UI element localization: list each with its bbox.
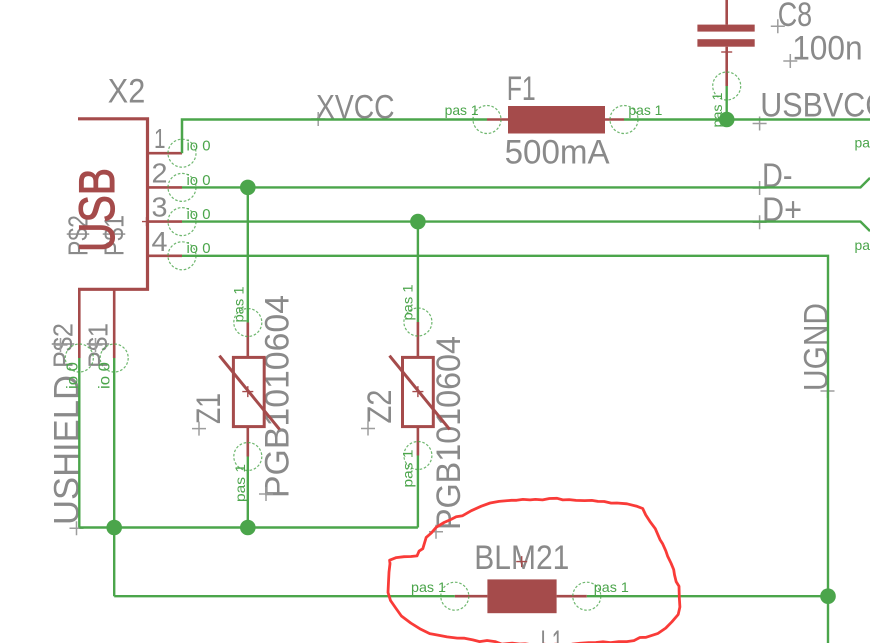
svg-text:pas 1: pas 1 (594, 579, 629, 595)
pin circle F1 left (473, 106, 501, 134)
wire XVCC net (182, 120, 487, 154)
X2 pin 2 stub (148, 186, 183, 189)
svg-text:D-: D- (762, 157, 793, 195)
varistor Z2 diagonal (390, 356, 450, 430)
svg-text:Z1: Z1 (190, 393, 228, 424)
svg-text:100n: 100n (792, 30, 863, 68)
junction BLM21/UGND (820, 588, 836, 604)
wire C8 to USBVCC (726, 86, 728, 120)
pin circle L1 right (573, 582, 601, 610)
ferrite bead L1 origin cross (516, 556, 527, 567)
USBVCC origin cross (753, 117, 767, 131)
varistor Z1 origin cross (242, 386, 253, 397)
varistor Z1 diagonal (219, 356, 279, 430)
svg-text:X2: X2 (108, 72, 146, 110)
svg-text:pas 1: pas 1 (445, 102, 479, 118)
wire Z2 top to D+ (417, 222, 419, 322)
capacitor C8 top lead (725, 0, 728, 25)
fuse F1 body (508, 106, 605, 134)
svg-text:1: 1 (154, 123, 166, 154)
pin circle Z2 top (404, 308, 432, 336)
junction bus/P$1 (106, 520, 122, 536)
capacitor C8 bottom pin stub (725, 47, 728, 86)
varistor Z2 bottom pin stub (417, 427, 420, 456)
pin circle X2-1 (168, 139, 196, 167)
X2 pin 1 stub (148, 152, 183, 155)
X2 pin 4 stub (148, 255, 183, 258)
Z1 text origin cross (192, 422, 206, 436)
pin circle X2-4 (168, 242, 196, 270)
wire shield pin P$1 down (113, 358, 115, 596)
wire Z1 bottom to bus (247, 457, 249, 528)
svg-text:2: 2 (152, 157, 168, 188)
wire D- net (182, 178, 870, 188)
varistor Z1 body (233, 357, 264, 426)
svg-text:pas 1: pas 1 (400, 284, 416, 320)
XVCC origin cross (311, 112, 325, 126)
wire USHIELD bus (79, 526, 418, 528)
ferrite bead L1 right pin stub (557, 595, 587, 598)
junction bus/Z1 (240, 520, 256, 536)
svg-text:3: 3 (152, 192, 168, 223)
svg-text:io 0: io 0 (187, 138, 211, 155)
capacitor C8 plate 1 (697, 25, 754, 32)
PGB Z2 origin cross (429, 525, 443, 539)
svg-text:L1: L1 (541, 624, 564, 643)
svg-text:USB: USB (69, 168, 125, 252)
pad cross P$2 (54, 338, 68, 352)
svg-text:pas 1: pas 1 (411, 579, 446, 595)
pin circle X2-P$1 (100, 344, 128, 372)
varistor Z2 origin cross (412, 386, 423, 397)
wire D+ net (182, 222, 870, 232)
svg-text:io 0: io 0 (97, 362, 114, 389)
capacitor C8 plate 2 (697, 39, 754, 47)
svg-text:UGND: UGND (798, 303, 836, 391)
100n text origin cross (783, 54, 797, 68)
PGB Z1 origin cross (259, 487, 273, 501)
svg-text:pas 1: pas 1 (855, 237, 870, 253)
svg-text:4: 4 (152, 226, 168, 257)
varistor Z2 body (403, 357, 434, 426)
annotation freehand red circle around BLM21 (388, 498, 680, 643)
pin circle L1 left (441, 582, 469, 610)
X2 part origin cross (142, 217, 151, 226)
ferrite bead L1 left pin stub (455, 595, 488, 598)
wire Z1 top to D- (247, 187, 249, 322)
wire shield pin P$2 down (78, 358, 80, 528)
connector X2 body (78, 119, 148, 289)
X2 shield pin P$2 stub (78, 289, 81, 358)
wire to BLM21 left (114, 595, 455, 597)
D- origin cross (753, 181, 767, 195)
pin circle Z2 bottom (404, 442, 432, 470)
junction D+/Z2 (410, 214, 426, 230)
USHIELD origin cross (70, 521, 84, 535)
D+ origin cross (753, 215, 767, 229)
wire UGND net from pin 4 (182, 256, 828, 643)
X2 pin 3 stub (148, 220, 183, 223)
svg-text:pas 1: pas 1 (232, 464, 248, 502)
svg-text:pas 1: pas 1 (855, 135, 870, 151)
wire USBVCC net (624, 118, 870, 121)
capacitor C8 origin cross (721, 51, 732, 53)
Z2 text origin cross (361, 422, 375, 436)
svg-text:USHIELD: USHIELD (48, 375, 87, 525)
varistor Z2 top pin stub (417, 322, 420, 357)
svg-text:pas 1: pas 1 (231, 286, 247, 322)
fuse F1 right pin stub (605, 118, 624, 121)
pin circle C8 (713, 72, 741, 100)
varistor Z1 top pin stub (247, 323, 250, 358)
UGND origin cross (821, 384, 835, 398)
wire Z2 bottom to bus (417, 456, 419, 528)
svg-text:Z2: Z2 (361, 390, 399, 424)
ferrite bead L1 body (487, 579, 556, 613)
svg-text:PGB1010604: PGB1010604 (430, 336, 468, 530)
X2 shield pin P$1 stub (113, 289, 116, 358)
pin circle X2-2 (168, 173, 196, 201)
svg-text:F1: F1 (507, 70, 536, 108)
pin circle Z1 bottom (234, 443, 262, 471)
pin circle Z1 top (234, 309, 262, 337)
junction USBVCC/C8 (719, 112, 735, 128)
fuse F1 left pin stub (487, 118, 508, 121)
pin circle X2-P$2 (65, 344, 93, 372)
pad cross P$1 (89, 338, 103, 352)
pin circle F1 right (610, 106, 638, 134)
varistor Z1 bottom pin stub (247, 427, 250, 457)
pin circle X2-3 (168, 208, 196, 236)
svg-text:500mA: 500mA (505, 133, 610, 171)
junction D-/Z1 (240, 180, 256, 196)
svg-text:D+: D+ (762, 191, 802, 229)
wire BLM21 right to UGND (587, 595, 828, 597)
C8 text origin cross (771, 19, 785, 33)
